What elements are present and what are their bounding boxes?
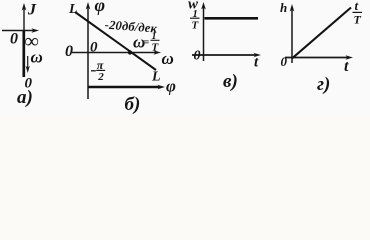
w axis arrowhead bbox=[201, 2, 206, 10]
label -pi/2 bbox=[91, 70, 96, 72]
svg-text:0: 0 bbox=[194, 49, 201, 64]
crossing dot at omega=1/T bbox=[128, 50, 132, 54]
vertical w axis bbox=[203, 7, 205, 61]
svg-text:φ: φ bbox=[95, 0, 106, 15]
horizontal t axis bbox=[192, 54, 257, 56]
svg-text:t: t bbox=[355, 0, 359, 13]
svg-text:0: 0 bbox=[10, 31, 18, 48]
svg-text:h: h bbox=[280, 0, 287, 15]
real axis arrowhead bbox=[32, 28, 40, 32]
svg-text:0: 0 bbox=[281, 54, 288, 69]
J axis arrowhead bbox=[22, 3, 27, 11]
t axis arrowhead bbox=[346, 55, 354, 59]
svg-text:=: = bbox=[144, 38, 150, 49]
horizontal real axis bbox=[2, 30, 35, 32]
ramp h(t)=t/T bbox=[292, 8, 351, 59]
vertical h axis bbox=[291, 9, 293, 63]
direction arrow (omega increases) bbox=[27, 56, 29, 68]
svg-text:0: 0 bbox=[65, 43, 73, 60]
horizontal omega axis bbox=[72, 52, 157, 54]
svg-text:г): г) bbox=[317, 74, 330, 95]
svg-text:б): б) bbox=[125, 94, 141, 115]
vertical J axis bbox=[23, 8, 25, 31]
svg-text:в): в) bbox=[223, 71, 238, 92]
paper background bbox=[0, 0, 370, 116]
w(t) constant line at 1/T bbox=[205, 17, 259, 20]
svg-text:φ: φ bbox=[166, 77, 176, 96]
phase line arrowhead bbox=[158, 85, 166, 89]
phase line at -pi/2 bbox=[88, 86, 160, 88]
svg-text:L: L bbox=[151, 70, 161, 85]
svg-text:t: t bbox=[344, 58, 349, 75]
svg-text:0: 0 bbox=[90, 40, 98, 56]
phi axis arrowhead bbox=[86, 2, 91, 10]
svg-text:L: L bbox=[68, 2, 78, 17]
hodograph line on negative imaginary axis bbox=[22, 31, 25, 77]
LAFC line L, -20 dB/dec bbox=[75, 12, 156, 70]
svg-text:J: J bbox=[27, 2, 37, 19]
svg-text:π: π bbox=[97, 58, 104, 72]
h axis arrowhead bbox=[290, 4, 295, 12]
horizontal t axis bbox=[285, 57, 348, 59]
svg-text:а): а) bbox=[17, 87, 33, 108]
vertical phi axis bbox=[87, 7, 89, 99]
t axis arrowhead bbox=[254, 53, 262, 57]
svg-text:ω: ω bbox=[162, 49, 174, 68]
svg-text:T: T bbox=[354, 13, 362, 27]
svg-text:2: 2 bbox=[97, 71, 104, 83]
svg-text:ω: ω bbox=[31, 48, 43, 67]
omega axis arrowhead bbox=[154, 50, 162, 54]
